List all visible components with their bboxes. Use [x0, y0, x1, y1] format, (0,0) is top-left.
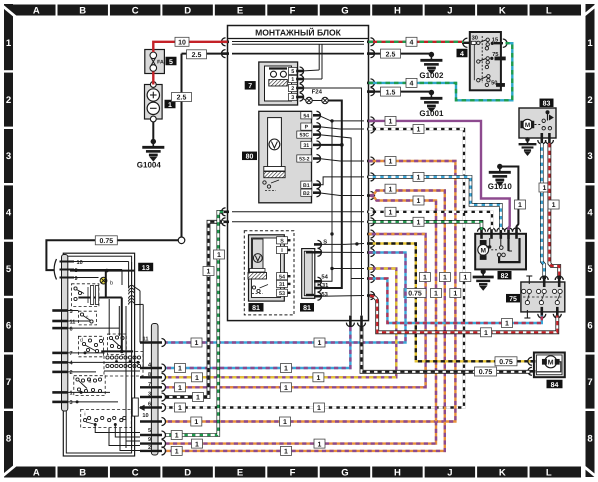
wire red-white from block to 75 — [370, 296, 557, 333]
wire yellow-purple to switch pin8 — [165, 269, 396, 378]
svg-text:1: 1 — [168, 102, 172, 109]
svg-text:M: M — [548, 360, 554, 367]
wire red-green to ignition 30 — [369, 41, 464, 43]
ground of 83 — [525, 137, 529, 141]
svg-text:1: 1 — [587, 38, 593, 49]
svg-text:11: 11 — [70, 319, 76, 325]
svg-text:1: 1 — [316, 375, 320, 382]
wire green-white from block to 82 — [369, 222, 482, 230]
connector 81 of wiper relay — [300, 238, 329, 312]
svg-text:1: 1 — [317, 405, 321, 412]
svg-text:1: 1 — [195, 441, 199, 448]
svg-text:5: 5 — [169, 59, 173, 66]
svg-text:5: 5 — [148, 428, 151, 434]
ground G1002 — [429, 52, 434, 57]
svg-text:6: 6 — [70, 326, 73, 332]
switch 13 contact group i — [81, 409, 132, 427]
svg-text:1: 1 — [417, 198, 421, 205]
svg-text:1: 1 — [284, 385, 288, 392]
svg-text:3: 3 — [291, 95, 294, 101]
svg-text:9: 9 — [148, 437, 151, 443]
svg-text:A: A — [33, 5, 40, 16]
wire cyan-purple from block bottom to switch pin4 — [165, 327, 350, 368]
svg-text:J: J — [447, 467, 452, 478]
wire yellow-black to heater motor 84 — [369, 244, 531, 362]
svg-text:2: 2 — [70, 370, 73, 376]
svg-text:K: K — [499, 5, 506, 16]
svg-text:G: G — [341, 5, 348, 16]
svg-text:B: B — [79, 467, 86, 478]
svg-text:1: 1 — [389, 159, 393, 166]
connector bar right of 13 with pins — [140, 291, 166, 455]
svg-text:53C: 53C — [300, 133, 310, 139]
fuse FA 5 — [145, 50, 177, 74]
svg-text:4: 4 — [410, 81, 414, 88]
svg-text:G1010: G1010 — [488, 182, 513, 191]
svg-text:B1: B1 — [303, 183, 310, 189]
svg-text:1: 1 — [552, 202, 556, 209]
svg-text:3: 3 — [70, 400, 73, 406]
wire 2.5 bus inside block — [232, 53, 364, 55]
svg-text:6: 6 — [148, 402, 151, 408]
wiper relay 80 in mounting block — [242, 111, 321, 203]
connector bar left of 13 — [52, 255, 82, 412]
svg-text:1: 1 — [443, 275, 447, 282]
svg-text:1: 1 — [178, 366, 182, 373]
svg-text:84: 84 — [551, 382, 559, 389]
svg-text:G1001: G1001 — [419, 109, 444, 118]
svg-text:7: 7 — [248, 83, 252, 90]
wire G1010 to wiper motor 82 — [500, 167, 519, 230]
ground G1010 — [497, 164, 502, 169]
washer pump motor 83 — [519, 99, 556, 144]
svg-text:53: 53 — [321, 291, 328, 298]
svg-text:1: 1 — [389, 186, 393, 193]
svg-text:53: 53 — [279, 291, 285, 297]
svg-text:0.75: 0.75 — [408, 291, 422, 298]
svg-text:1: 1 — [518, 202, 522, 209]
svg-text:A: A — [33, 467, 40, 478]
svg-text:54: 54 — [279, 274, 285, 280]
svg-text:31: 31 — [303, 143, 309, 149]
wire green-white switch pin5 to block — [165, 212, 224, 435]
svg-text:1: 1 — [284, 366, 288, 373]
svg-text:8: 8 — [6, 434, 11, 445]
svg-text:C: C — [132, 467, 139, 478]
wire internal traces upper block — [232, 88, 364, 316]
svg-text:K: K — [499, 467, 506, 478]
svg-text:5: 5 — [291, 69, 294, 75]
svg-text:F: F — [290, 467, 296, 478]
svg-text:h: h — [89, 379, 92, 385]
svg-text:1: 1 — [207, 269, 211, 276]
svg-text:1: 1 — [175, 449, 179, 456]
svg-text:2: 2 — [6, 95, 11, 106]
wire cyan from 83 to connector 75 — [542, 143, 544, 279]
switch 13 contact group h — [74, 376, 105, 396]
svg-text:1: 1 — [195, 375, 199, 382]
svg-text:7: 7 — [148, 382, 151, 388]
svg-text:M: M — [525, 122, 530, 129]
svg-text:10: 10 — [178, 40, 186, 47]
svg-text:0.75: 0.75 — [99, 238, 113, 245]
svg-text:1: 1 — [318, 441, 322, 448]
wire teal-green to ignition 15 — [369, 43, 513, 100]
svg-text:31: 31 — [322, 282, 329, 289]
switch 13 middle contact cluster — [104, 352, 143, 377]
svg-text:1: 1 — [283, 419, 287, 426]
svg-text:b: b — [110, 281, 113, 287]
svg-text:4: 4 — [410, 40, 414, 47]
svg-text:31: 31 — [279, 282, 285, 288]
wire to G1001 — [369, 92, 432, 93]
wire 0.75 black to switch 13 — [46, 240, 178, 270]
svg-text:P: P — [305, 125, 309, 131]
svg-text:S: S — [323, 238, 327, 245]
svg-text:4: 4 — [587, 208, 593, 219]
svg-text:75: 75 — [509, 296, 517, 303]
svg-text:2.5: 2.5 — [177, 95, 187, 102]
svg-text:1: 1 — [417, 175, 421, 182]
svg-text:1: 1 — [453, 291, 457, 298]
svg-text:5: 5 — [6, 264, 12, 275]
svg-text:1: 1 — [318, 340, 322, 347]
svg-text:83: 83 — [543, 101, 551, 108]
svg-text:1: 1 — [194, 419, 198, 426]
wire red bus inside block — [232, 42, 364, 80]
svg-text:1: 1 — [463, 275, 467, 282]
svg-text:1: 1 — [195, 340, 199, 347]
svg-text:1: 1 — [284, 449, 288, 456]
wire purple-orange to switch pin7 — [165, 234, 426, 387]
svg-text:7: 7 — [587, 377, 592, 388]
heater fan motor 84 — [528, 353, 565, 389]
svg-text:1: 1 — [543, 185, 547, 192]
svg-text:82: 82 — [501, 273, 509, 280]
svg-text:2: 2 — [148, 445, 151, 451]
wire black-white from block to 82 — [369, 212, 493, 230]
mounting block edge connector arcs — [222, 38, 375, 327]
battery 1 — [145, 82, 176, 122]
svg-text:1: 1 — [70, 391, 73, 397]
svg-text:8: 8 — [587, 434, 592, 445]
svg-text:0.75: 0.75 — [499, 359, 513, 366]
svg-text:0.75: 0.75 — [479, 369, 493, 376]
svg-text:B: B — [79, 5, 86, 16]
wiper relay 81 (dashed unit) — [244, 231, 294, 315]
svg-text:1: 1 — [505, 321, 509, 328]
wire orange-purple hook to switch pin2 — [165, 191, 445, 451]
svg-text:81: 81 — [252, 305, 260, 312]
wire white-black switch pin3 to block — [165, 222, 224, 397]
svg-text:F24: F24 — [312, 89, 323, 96]
svg-text:1: 1 — [434, 291, 438, 298]
switch 13 contact group c — [78, 311, 96, 325]
wire cyan-red to connector 75 — [369, 279, 542, 324]
svg-text:7: 7 — [70, 351, 73, 357]
svg-text:8: 8 — [148, 372, 151, 378]
svg-text:1: 1 — [389, 210, 393, 217]
svg-text:S: S — [280, 238, 284, 244]
svg-text:1: 1 — [291, 77, 294, 83]
wire orange-purple hook to switch pin9 — [165, 196, 436, 444]
inner wiring of switch 13 — [68, 262, 144, 449]
ground G1001 — [429, 90, 434, 95]
svg-text:МОНТАЖНЫЙ БЛОК: МОНТАЖНЫЙ БЛОК — [255, 28, 342, 38]
wire orange-purple to switch pin10 — [165, 161, 455, 422]
wiper motor unit 82 — [475, 228, 526, 280]
svg-text:6: 6 — [587, 320, 592, 331]
svg-text:F: F — [290, 5, 296, 16]
svg-text:13: 13 — [142, 265, 150, 272]
svg-text:1: 1 — [178, 385, 182, 392]
svg-text:FA: FA — [157, 60, 164, 66]
svg-text:E: E — [237, 467, 243, 478]
wire 2.5 black from block — [178, 54, 227, 244]
svg-text:3: 3 — [587, 151, 592, 162]
wire red-white from 83 to connector 75 — [549, 143, 559, 279]
wire black-white long to switch pin6 — [165, 129, 464, 408]
svg-text:1: 1 — [217, 252, 221, 259]
ground of 82 — [481, 269, 486, 274]
svg-text:1: 1 — [389, 119, 393, 126]
svg-text:81: 81 — [303, 305, 311, 312]
wire purple from block to 82 — [369, 121, 510, 230]
svg-text:D: D — [184, 467, 191, 478]
svg-text:3: 3 — [148, 392, 151, 398]
svg-text:30: 30 — [472, 35, 478, 42]
svg-text:2.5: 2.5 — [192, 52, 202, 59]
svg-text:4: 4 — [6, 208, 12, 219]
connector 75 — [506, 276, 565, 318]
wire white-black from block bottom to 84 — [362, 327, 531, 372]
svg-text:1: 1 — [178, 405, 182, 412]
svg-text:10: 10 — [77, 260, 83, 266]
ignition switch 4 — [457, 32, 508, 90]
svg-text:1: 1 — [417, 220, 421, 227]
switch 13 contact group d — [78, 336, 103, 357]
svg-text:2.5: 2.5 — [386, 51, 396, 58]
svg-text:G1004: G1004 — [137, 161, 162, 170]
wire battery to ground G1004 — [152, 122, 154, 141]
svg-text:1.5: 1.5 — [386, 89, 396, 96]
svg-text:54: 54 — [303, 113, 309, 119]
svg-text:6: 6 — [6, 320, 11, 331]
svg-text:80: 80 — [246, 154, 254, 161]
svg-text:1: 1 — [6, 38, 12, 49]
svg-text:1: 1 — [175, 433, 179, 440]
switch 13 contact group e — [108, 334, 127, 355]
svg-text:E: E — [237, 5, 243, 16]
svg-text:3: 3 — [6, 151, 11, 162]
svg-text:5: 5 — [587, 264, 593, 275]
brace connector of 0.75 wire — [54, 259, 56, 280]
svg-text:1: 1 — [417, 127, 421, 134]
wire to G1002 — [369, 54, 432, 55]
svg-text:M: M — [480, 247, 486, 254]
wire cyan-purple to switch pin11 — [165, 253, 406, 343]
switch 13 lower output traces — [95, 425, 140, 451]
svg-text:L: L — [546, 467, 552, 478]
svg-text:2: 2 — [291, 86, 294, 92]
svg-text:5: 5 — [70, 309, 73, 315]
svg-text:G1002: G1002 — [419, 71, 444, 80]
svg-text:G: G — [341, 467, 348, 478]
svg-text:2: 2 — [587, 95, 592, 106]
steering column switch 13 outline — [63, 253, 134, 456]
switch 13 contact group a — [72, 284, 99, 307]
svg-text:J: J — [447, 5, 452, 16]
svg-text:D: D — [184, 5, 191, 16]
svg-text:i: i — [84, 412, 85, 418]
svg-text:L: L — [546, 5, 552, 16]
svg-text:1: 1 — [484, 330, 488, 337]
svg-text:H: H — [394, 467, 401, 478]
fuse F24 — [302, 89, 329, 104]
switch 13 resistor with arrow — [132, 398, 151, 416]
svg-text:53-2: 53-2 — [299, 157, 309, 163]
svg-text:H: H — [394, 5, 401, 16]
svg-text:C: C — [132, 5, 139, 16]
svg-text:7: 7 — [6, 377, 11, 388]
svg-text:B2: B2 — [303, 191, 310, 197]
relay K 7 in mounting block — [245, 62, 304, 105]
svg-text:4: 4 — [460, 51, 464, 58]
wire cyan-white from block to 82 — [369, 177, 501, 230]
svg-text:1: 1 — [196, 395, 200, 402]
ground G1004 — [151, 139, 156, 144]
svg-text:54: 54 — [321, 275, 328, 281]
svg-text:10: 10 — [142, 413, 148, 419]
mounting block (МОНТАЖНЫЙ БЛОК) outline — [228, 26, 369, 321]
wire red supply 10 — [153, 42, 227, 85]
svg-text:9: 9 — [75, 276, 78, 282]
svg-text:1: 1 — [423, 275, 427, 282]
